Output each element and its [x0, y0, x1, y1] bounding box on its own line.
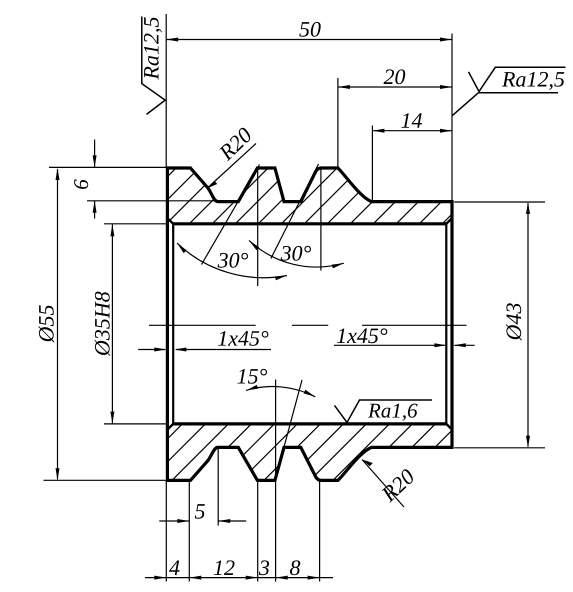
hatching top band — [104, 150, 516, 240]
extension line left bore bottom — [104, 423, 168, 425]
angle ref vertical v2 — [320, 168, 322, 271]
15 deg wall extension line3 — [284, 380, 302, 447]
dim D43 line — [527, 203, 529, 447]
surface finish Ra12,5 right text — [502, 72, 564, 90]
dim 5 text — [195, 504, 205, 519]
dim 14 line and extension — [372, 126, 452, 201]
arc 30 deg right arrows — [249, 240, 344, 268]
radius R20 bottom arrow — [362, 460, 373, 467]
dim 6 lines — [94, 140, 96, 219]
dim 50 text — [299, 22, 320, 37]
radius R20 top arrow — [207, 181, 218, 189]
angle ref vertical v1 — [257, 168, 259, 286]
dim 20 line and extension — [338, 78, 452, 168]
dim 12 text — [214, 560, 235, 575]
surface finish Ra12,5 right symbol — [452, 67, 565, 115]
angle 30 deg right text — [281, 246, 311, 261]
dim 1x45 left arrows — [154, 348, 186, 352]
bore bottom line — [173, 422, 446, 425]
dim 1x45 right arrows — [434, 343, 465, 347]
dim 14 text — [401, 113, 422, 128]
dim 5 arrows — [177, 519, 230, 523]
bottom chain extension lines — [166, 480, 319, 581]
radius R20 bottom text — [382, 469, 413, 502]
surface finish Ra1,6 text — [368, 404, 418, 421]
hatching bottom band — [106, 410, 518, 500]
bore chamfer diagonals — [167, 218, 452, 430]
extension line left bottom surface — [44, 479, 168, 481]
arc 15 deg — [246, 387, 315, 397]
dim chain arrows — [154, 576, 319, 580]
dim 1x45 left text — [218, 331, 268, 346]
arc 30 deg left arrows — [177, 243, 287, 280]
dim 3 text — [259, 560, 269, 575]
15 deg ref vertical v3 — [275, 380, 277, 582]
bore top line — [173, 222, 446, 225]
angle wall extension line1 — [202, 165, 260, 265]
arc 30 deg right — [249, 240, 344, 267]
chamfer edge line left — [172, 224, 174, 424]
surface finish Ra12,5 left text — [144, 17, 162, 79]
dim 50 arrows — [166, 38, 452, 42]
dim D35H8 arrows — [110, 224, 114, 423]
part outline (section profile with V-grooves) — [167, 168, 452, 480]
dim D43 text — [506, 303, 521, 340]
dim 5 lines — [159, 448, 246, 526]
dim 6 arrows — [93, 155, 97, 212]
radius R20 top text — [219, 128, 250, 162]
extension line left bore top — [104, 223, 167, 225]
dim D43 arrows — [526, 202, 530, 448]
angle wall extension line2 — [271, 164, 319, 259]
dim 4 text — [169, 561, 179, 576]
dim 20 text — [384, 69, 406, 84]
angle 30 deg left text — [218, 253, 248, 268]
extension line left top surface — [49, 166, 167, 168]
dim 1x45 left lines — [138, 349, 271, 351]
dim 20 arrows — [338, 85, 452, 89]
surface finish Ra1,6 symbol — [335, 400, 433, 423]
dim D55 line — [57, 169, 59, 479]
angle 15 deg text — [237, 369, 267, 384]
dim D55 text — [39, 305, 55, 343]
dim D35H8 line — [111, 225, 113, 424]
chamfer edge line right — [445, 224, 447, 424]
dim 8 text — [290, 560, 300, 575]
dim 1x45 right lines — [334, 344, 475, 346]
dim D35H8 text — [95, 292, 111, 357]
radius R20 bottom leader — [362, 460, 404, 508]
dim 50 line and extensions — [166, 14, 452, 201]
extension line left groove depth — [87, 200, 217, 202]
dim 14 arrows — [372, 129, 452, 133]
dim D55 arrows — [56, 168, 60, 480]
dim 6 text — [74, 179, 88, 189]
centerline — [149, 324, 467, 326]
arc 30 deg left — [177, 243, 287, 278]
dim 1x45 right text — [337, 328, 387, 343]
arc 15 deg arrows — [246, 385, 315, 397]
surface finish Ra12,5 left symbol — [142, 17, 165, 115]
dim D43 extension lines — [454, 202, 545, 448]
dim chain line — [145, 577, 333, 579]
radius R20 top leader — [207, 144, 256, 189]
